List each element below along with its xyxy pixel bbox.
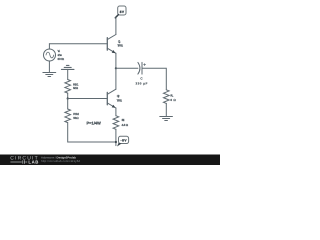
wire V1 top to Q1 base	[49, 43, 107, 45]
svg-text:56 Ω: 56 Ω	[73, 116, 79, 120]
transistor Q2	[107, 89, 116, 108]
wire RB2 to bottom node	[68, 123, 116, 142]
label Q1 TIP31	[117, 39, 123, 47]
svg-text:RE: RE	[122, 118, 125, 122]
svg-text:Q2: Q2	[117, 94, 120, 98]
label RB1 62 ohm	[73, 82, 79, 90]
label RL 8 ohm	[170, 93, 176, 102]
wire RB1 to node A	[67, 93, 69, 98]
label RB2 56 ohm	[73, 112, 79, 120]
watermark text	[41, 156, 80, 163]
node B	[115, 67, 117, 69]
svg-text:60 Hz: 60 Hz	[58, 57, 65, 61]
wire node A to RB2	[67, 99, 69, 110]
ground above RB1 (inverted)	[61, 65, 74, 69]
wire Q2 collector to node B	[115, 68, 117, 89]
wire Q2 emitter to RE	[115, 108, 117, 116]
svg-text:RL: RL	[170, 93, 173, 97]
resistor RL	[164, 90, 170, 104]
svg-text:Q1: Q1	[118, 39, 121, 43]
svg-text:-8V: -8V	[121, 138, 128, 142]
wire ground to RB1	[67, 69, 69, 79]
resistor RB2	[65, 109, 71, 123]
svg-text:330 µF: 330 µF	[135, 81, 147, 85]
svg-text:62 Ω: 62 Ω	[73, 86, 79, 90]
label V1 sine 60 Hz	[58, 49, 65, 61]
svg-text:TIP31: TIP31	[117, 98, 123, 102]
svg-text:8 Ω: 8 Ω	[170, 98, 176, 102]
svg-text:http://circuitlab.com/c4t1y6d: http://circuitlab.com/c4t1y6d	[41, 159, 80, 163]
wire RL to ground	[165, 103, 167, 116]
label Q2 TIP31	[117, 94, 123, 103]
node C	[115, 141, 117, 143]
wire RE to node C	[115, 129, 117, 145]
transistor Q1	[107, 35, 116, 54]
wire node A to Q2 base	[68, 98, 108, 100]
supply callout -8V	[117, 136, 129, 146]
svg-text:P=1/4W: P=1/4W	[87, 120, 102, 125]
watermark bar	[0, 155, 220, 166]
label C 330 uF	[135, 76, 147, 85]
wire node B to capacitor	[116, 67, 138, 69]
watermark logo CIRCUIT LAB	[10, 156, 38, 165]
label RE 4.8 ohm	[122, 118, 129, 127]
node A	[67, 97, 69, 99]
wire capacitor to RL	[142, 68, 166, 90]
svg-text:LAB: LAB	[28, 160, 38, 165]
wire Q1 emitter to node B	[115, 53, 117, 68]
ground below RL	[160, 117, 173, 121]
resistor RE	[113, 116, 119, 130]
ground below V1	[43, 73, 56, 77]
svg-text:4.8 Ω: 4.8 Ω	[122, 123, 129, 127]
capacitor C	[138, 62, 146, 74]
wire 8V to Q1 collector	[115, 18, 117, 35]
svg-text:TIP31: TIP31	[117, 44, 123, 48]
voltage source V1	[44, 44, 56, 73]
resistor RB1	[65, 80, 71, 94]
supply callout 8V	[115, 6, 126, 18]
